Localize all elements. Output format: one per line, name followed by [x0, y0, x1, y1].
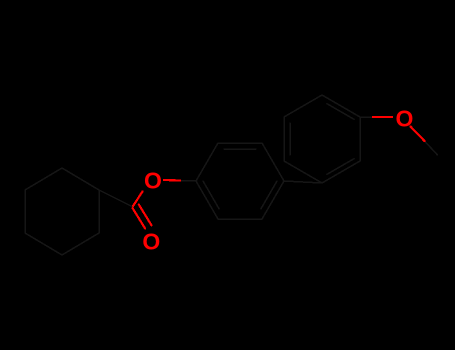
svg-text:O: O: [396, 106, 414, 132]
svg-text:O: O: [142, 228, 160, 254]
benzene ring B1 inner double bonds: [203, 149, 277, 209]
benzene ring B2 inner double bonds: [290, 104, 354, 175]
svg-text:O: O: [144, 168, 162, 194]
wire carbonyl C to ester O: [133, 191, 143, 206]
carbonyl C=O double bond: [133, 205, 152, 229]
cyclohexane ring C1: [25, 168, 99, 255]
wire methoxy O to CH3 (red half): [411, 127, 425, 142]
wire biphenyl link bond: [284, 181, 322, 183]
wire ester O to ring B1 (red half): [164, 179, 180, 182]
wire methoxy O to CH3 (dark half): [425, 141, 438, 155]
wire ring B2 to methoxy O (dark half): [360, 116, 373, 118]
benzene ring B2: [284, 95, 360, 183]
wire ring C1 to carbonyl C: [99, 190, 133, 207]
wire methoxy O left bond (red half): [373, 116, 392, 118]
benzene ring B1: [196, 143, 284, 219]
wire ester O to ring B1 (dark half): [180, 180, 196, 183]
